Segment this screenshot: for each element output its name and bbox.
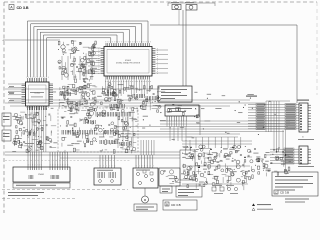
svg-text:CD 3.B: CD 3.B xyxy=(171,203,181,207)
svg-text:B: B xyxy=(166,202,168,206)
svg-text:CD 3.B: CD 3.B xyxy=(280,191,289,195)
svg-text:CN601: CN601 xyxy=(38,174,45,176)
svg-text:CD 3.B: CD 3.B xyxy=(17,6,29,10)
svg-text:C: C xyxy=(275,191,277,194)
svg-text:IC601: IC601 xyxy=(125,60,132,62)
svg-text:DIGITAL SIGNAL PROCESSOR: DIGITAL SIGNAL PROCESSOR xyxy=(116,61,141,64)
